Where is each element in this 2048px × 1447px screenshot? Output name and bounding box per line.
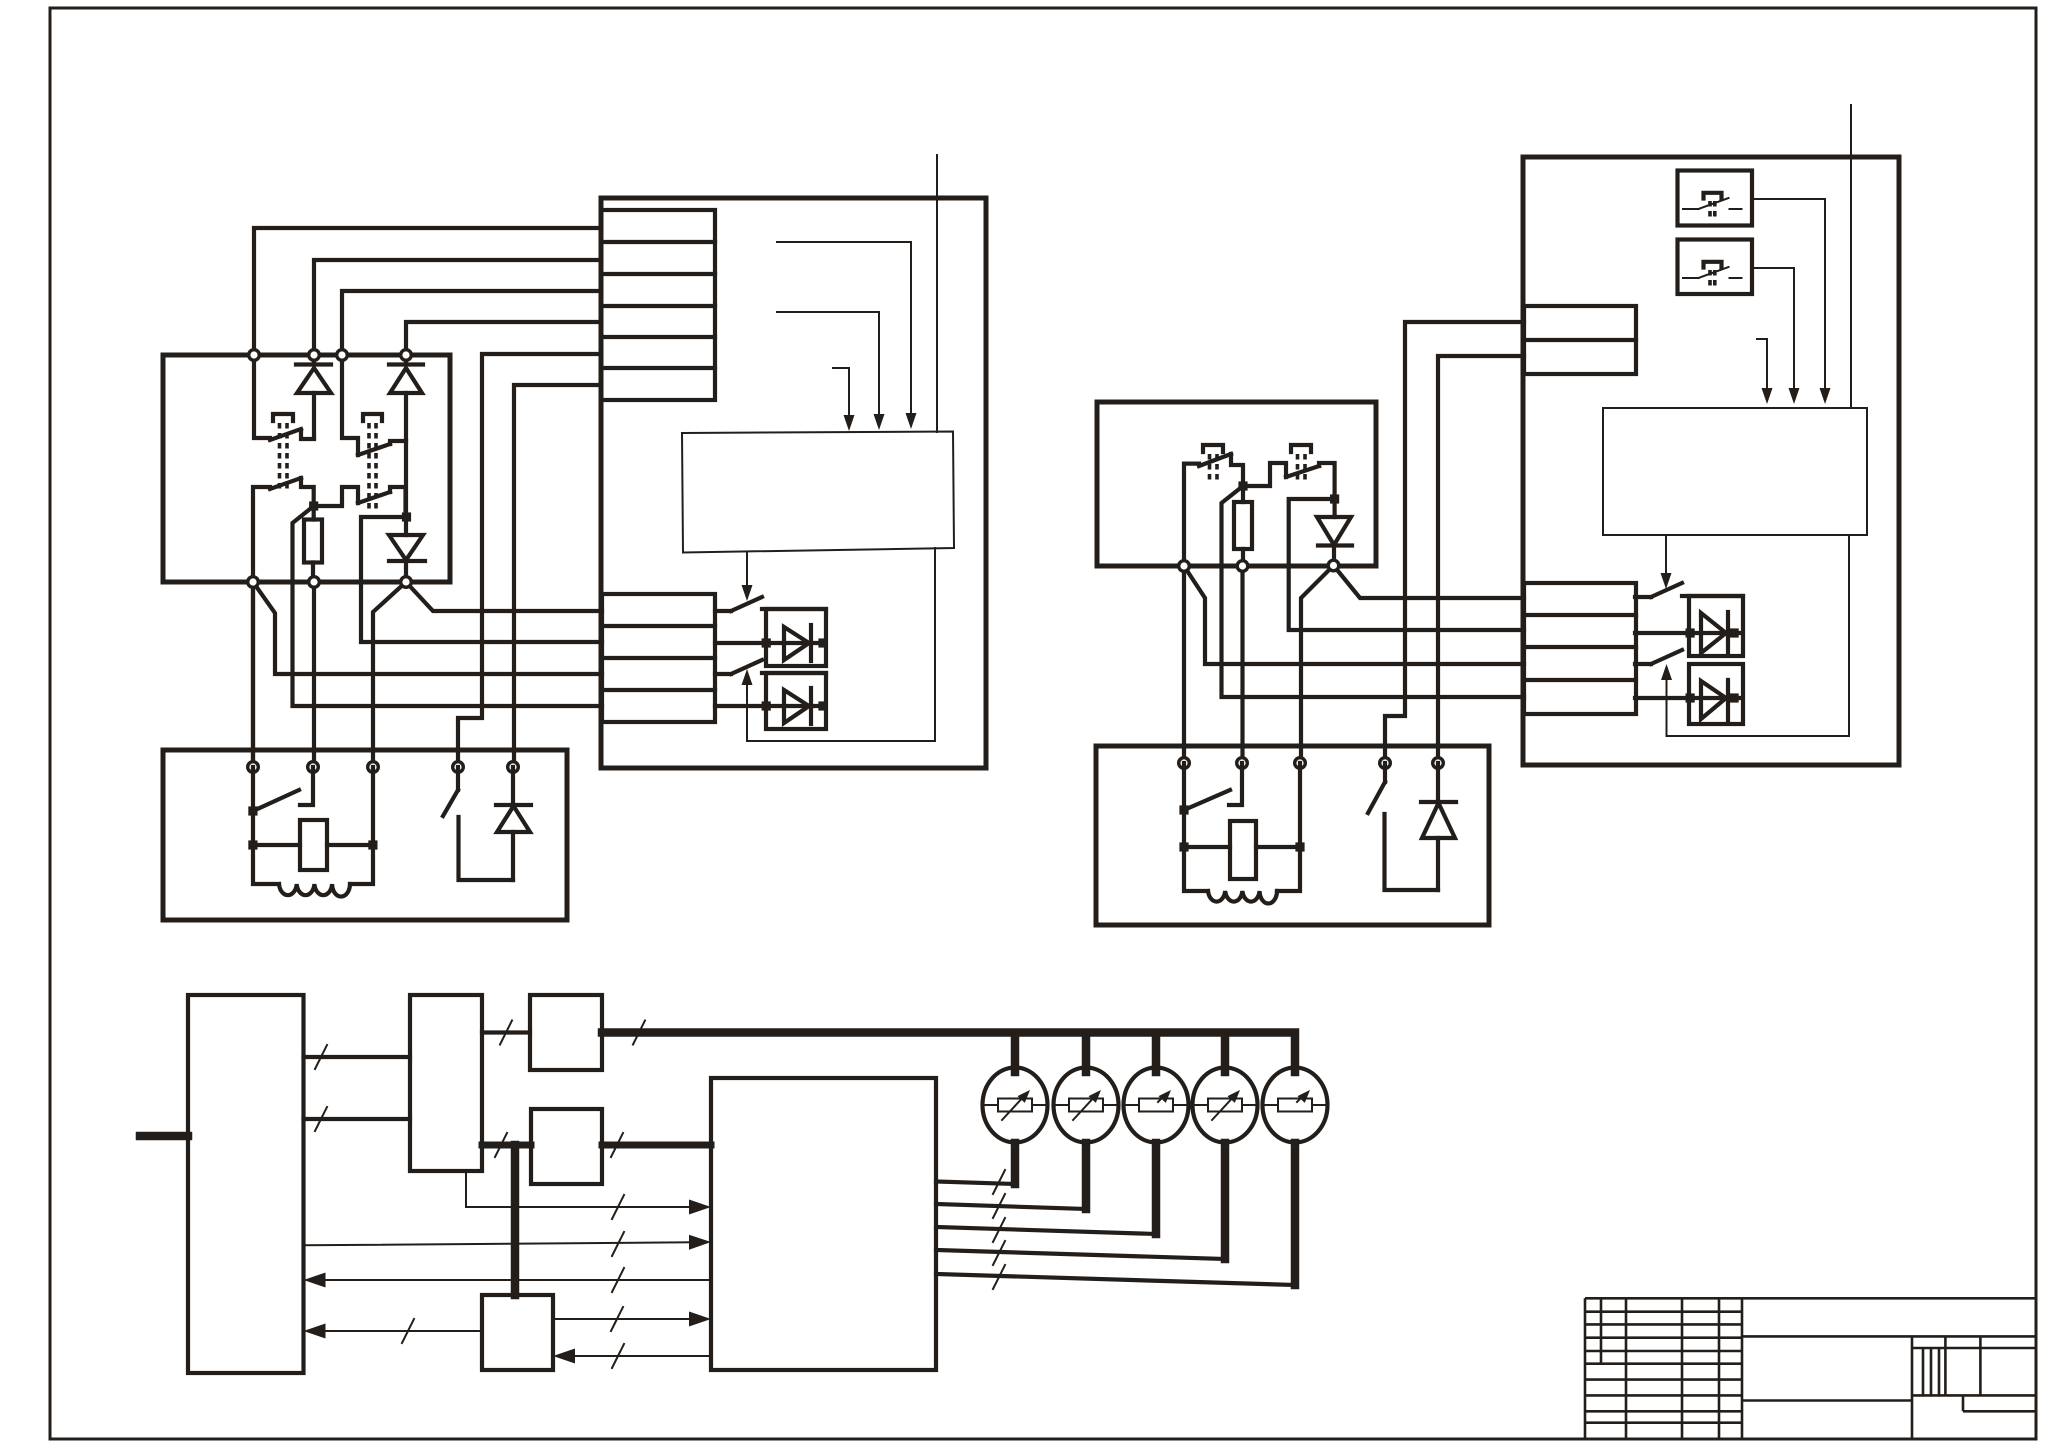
wire nodeB3 diag to XT4.1 [1334, 566, 1525, 599]
wire nodeB1 diag to XT4.3 [1184, 566, 1524, 664]
title block outline [1585, 1298, 2036, 1438]
wire nodeB1 drop [1182, 566, 1186, 763]
wire CB2 to U4 [1753, 268, 1800, 404]
node circle b1 [248, 577, 259, 588]
bus D4-D6 [602, 1133, 711, 1157]
control arrow up SC2 [1661, 664, 1672, 736]
sensor box CB1 [1678, 171, 1753, 226]
block D2 [410, 995, 482, 1171]
wire node3 diag to B1.3 [373, 582, 406, 767]
node circle b2 [309, 577, 320, 588]
diode VD3 [496, 767, 531, 880]
node circle t3 [368, 762, 379, 773]
signal D5-D1 [304, 1319, 483, 1343]
gauge M4 feeder [936, 1036, 1225, 1265]
node circle bb1 [1179, 561, 1190, 572]
node circle a2 [309, 350, 320, 361]
node circle bb3 [1328, 560, 1339, 571]
title block left column verticals [1601, 1298, 1742, 1438]
block D4 [531, 1109, 602, 1184]
switch S2 of A1 [715, 660, 762, 674]
thyristor unit U1 [715, 609, 828, 666]
signal D6-D1 [304, 1268, 712, 1292]
feedback wire U4 [1667, 535, 1850, 736]
diode VD5 [1421, 763, 1456, 890]
block D1 converter [188, 995, 304, 1373]
wire node1 drop [251, 582, 255, 767]
input bus stub [140, 1132, 188, 1141]
junction dot B [402, 512, 411, 521]
gauge M3 feeder [936, 1036, 1156, 1242]
title block right section lines [1742, 1336, 2036, 1438]
contact K2.2 [314, 487, 406, 517]
resistor R2 [1234, 486, 1252, 566]
input arrow i2 [777, 312, 885, 430]
input wire j4 [1850, 105, 1852, 408]
node circle t4 [453, 762, 464, 773]
node circle bt3 [1295, 758, 1306, 769]
thyristor unit UB1 [1635, 596, 1743, 656]
control arrow up S2 [742, 669, 753, 741]
contact SB2 [1368, 763, 1438, 890]
diode VS1 [389, 517, 425, 582]
motor rheostat M2 [1053, 1068, 1119, 1143]
wire VD2 chain [404, 441, 408, 517]
motor rheostat M3 [1123, 1068, 1189, 1143]
wire bus a3 to XT1.3 [342, 291, 601, 355]
wire XT1.6 riser [514, 385, 601, 767]
switch S1 of A1 [715, 597, 762, 611]
relay KV2 contact [1179, 763, 1242, 815]
block D5 [482, 1295, 553, 1370]
mech linkage K1 [273, 414, 293, 492]
wire bus a1 to XT1.1 [254, 228, 601, 355]
block L1 contactor group [163, 355, 450, 582]
wire dotBB tap to XT4.2 [1289, 499, 1524, 630]
bus D2-D3 [482, 1021, 530, 1045]
motor rheostat M1 [982, 1068, 1048, 1143]
bus D2-D4 [482, 1133, 531, 1157]
wire node3 diag to XT2.1 [406, 582, 602, 611]
input arrow i1 [833, 368, 855, 431]
thyristor unit U2 [715, 673, 828, 729]
node circle a3 [337, 350, 348, 361]
input wire j3 [1757, 339, 1773, 404]
signal D5-D6 [553, 1307, 711, 1331]
terminal strip XT2 [602, 594, 715, 722]
sensor box CB2 [1678, 240, 1753, 295]
contact SB1 [443, 767, 513, 880]
wire dotBA bypass to XT4.4 [1222, 486, 1525, 697]
regulator block U3 [682, 432, 954, 553]
node circle bt1 [1179, 758, 1190, 769]
node circle bt4 [1380, 758, 1391, 769]
wire XT3.1 riser [1385, 322, 1524, 763]
bus D1-D2 a [304, 1045, 411, 1069]
input arrow i3 [777, 242, 917, 429]
inductor L of KV1 [253, 845, 373, 897]
bus D1-D2 b [304, 1107, 411, 1131]
block B2 relay group [1096, 746, 1489, 925]
mech linkage K2 [363, 414, 382, 510]
diode VD1 [296, 355, 331, 438]
node circle bt5 [1433, 758, 1444, 769]
contact KB2 [1243, 463, 1335, 499]
node circle t2 [308, 762, 319, 773]
wire gate tap to XT2.2 [361, 517, 602, 642]
node circle bt2 [1237, 758, 1248, 769]
wire node1 diag to XT2.3 [253, 582, 602, 674]
junction dot BA [1238, 481, 1247, 490]
block L2 contactor group [1097, 402, 1376, 566]
feedback wire U3 [747, 548, 935, 741]
wire CB1 to U4 [1754, 199, 1831, 404]
terminal strip XT4 [1524, 583, 1636, 714]
wire XT1.5 riser [458, 354, 601, 767]
signal D2-D6 [466, 1171, 711, 1219]
resistor R1 [304, 506, 322, 582]
regulator block U4 [1603, 408, 1867, 535]
gauge M5 feeder [936, 1143, 1295, 1289]
contact K1.2 [253, 478, 314, 767]
signal D1-D6 [304, 1232, 712, 1256]
node circle t5 [508, 762, 519, 773]
terminal strip XT1 [601, 210, 715, 400]
relay KV1 contact [248, 767, 313, 816]
contact KB1 [1184, 454, 1243, 566]
wire nodeB2 drop [1240, 566, 1244, 763]
signal D6-D5 [553, 1344, 711, 1368]
switch SC2 of A2 [1635, 650, 1682, 664]
wire bus a2 to XT1.2 [314, 260, 601, 355]
input wire i4 [936, 155, 938, 432]
block A1 control unit [601, 198, 986, 768]
node circle t1 [248, 762, 259, 773]
wire XT3.2 riser [1438, 356, 1524, 763]
block A2 control unit [1523, 157, 1899, 765]
switch SC1 of A2 [1635, 583, 1682, 597]
contact K2.1 [342, 355, 406, 455]
inductor L of KV2 [1184, 847, 1300, 904]
contact K1.1 [254, 355, 314, 440]
junction dot A [309, 501, 318, 510]
gauge M2 feeder [936, 1036, 1086, 1218]
thyristor unit UB2 [1635, 664, 1743, 724]
mech linkage KB1 [1203, 445, 1223, 481]
relay KV2 coil [1179, 763, 1304, 879]
junction dot BB [1330, 494, 1339, 503]
block B1 relay group [163, 750, 567, 920]
block D3 [530, 995, 602, 1070]
control arrow down S1 [742, 552, 753, 601]
wire nodeB3 diag to B2.3 [1301, 566, 1334, 764]
relay KV1 coil [248, 767, 377, 870]
motor rheostat M4 [1192, 1068, 1258, 1143]
diode VD2 [389, 355, 423, 438]
gauge M1 feeder [936, 1036, 1015, 1194]
title block left column grid rows [1585, 1312, 1742, 1423]
terminal strip XT3 [1524, 306, 1636, 374]
node circle a1 [249, 350, 260, 361]
node circle a4 [401, 350, 412, 361]
wire node2 drop [312, 582, 316, 767]
wire node to R1 bypass [293, 506, 603, 706]
diode VS2 [1317, 499, 1352, 566]
block D6 controller [711, 1078, 936, 1370]
motor rheostat M5 [1262, 1068, 1328, 1143]
bus drop to D5 [511, 1145, 520, 1295]
wire bus a4 to XT1.4 [406, 322, 601, 355]
node circle b3 [401, 577, 412, 588]
bus D3 to gauges [602, 1021, 1295, 1073]
mech linkage KB2 [1291, 445, 1311, 481]
node circle bb2 [1237, 561, 1248, 572]
control arrow down SC1 [1661, 535, 1672, 589]
